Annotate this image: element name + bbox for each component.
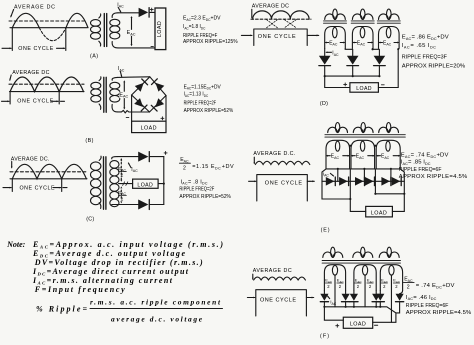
transformer T4 primary (D phase 1) xyxy=(325,9,346,19)
diode CR15 (E) xyxy=(381,177,390,186)
svg-text:APPROX RIPPLE=4.5%: APPROX RIPPLE=4.5% xyxy=(406,310,472,316)
svg-text:DV=Voltage drop in rectifier (: DV=Voltage drop in rectifier (r.m.s.) xyxy=(34,258,203,267)
wire: E junction 2-3 down xyxy=(375,169,404,194)
node junction dots on D bus xyxy=(324,75,326,77)
wire: diode to load (A) xyxy=(150,11,156,13)
svg-text:ONE CYCLE: ONE CYCLE xyxy=(17,98,53,104)
svg-text:EAC​: EAC​ xyxy=(331,154,340,160)
transformer T8 secondary winding (E phase 2) xyxy=(351,140,375,169)
label EAC/2 left half (F phase 1) xyxy=(325,278,333,290)
label + polarity (F) xyxy=(336,324,339,327)
wire: secondary bottom to diode (C) xyxy=(114,204,139,206)
one cycle frame E xyxy=(249,175,315,201)
transformer T6 primary (D phase 3) xyxy=(379,9,400,19)
svg-text:= .74 EDC​+DV: = .74 EDC​+DV xyxy=(416,283,455,289)
node: section B full-wave bridge rectifier xyxy=(2,66,234,144)
wire: F leg 5 to diode xyxy=(379,291,381,294)
label EAC (D phase 3) xyxy=(379,40,400,46)
svg-text:EAC​=2.3 EDC​+DV: EAC​=2.3 EDC​+DV xyxy=(183,16,221,22)
label IAC (F) xyxy=(327,296,336,306)
svg-text:IAC​: IAC​ xyxy=(332,51,339,57)
transformer T2 secondary xyxy=(110,77,120,112)
diode CR19 (F) xyxy=(350,294,358,301)
label EAC with arrow (A) xyxy=(127,16,136,46)
wire: bridge left corner to load (B) xyxy=(131,95,133,121)
label IAC (B) xyxy=(118,66,125,77)
svg-text:AVERAGE DC: AVERAGE DC xyxy=(12,70,49,76)
label EAC/2 right half (F phase 1) xyxy=(337,278,345,290)
load E (resistor box) xyxy=(366,206,393,217)
diode CR10 (D) xyxy=(374,56,386,65)
svg-text:(F): (F) xyxy=(320,333,329,339)
wire: E right end down to load right xyxy=(392,169,404,212)
dashed phase crossings (D) xyxy=(267,20,297,28)
wire: D cathode bus xyxy=(325,75,380,77)
wire: secondary top to diode (C) xyxy=(117,156,138,158)
svg-text:LOAD: LOAD xyxy=(141,126,157,132)
transformer T5 core (D phase 2) xyxy=(351,21,374,23)
svg-text:2: 2 xyxy=(407,284,410,290)
label + polarity (C) xyxy=(164,151,167,154)
node junction dot (E mid bus) xyxy=(374,193,376,195)
transformer T2 core xyxy=(104,77,106,112)
svg-text:EAC​: EAC​ xyxy=(356,154,365,160)
load C (resistor box) xyxy=(133,179,159,188)
svg-text:EAC​= .86 EDC​+DV: EAC​= .86 EDC​+DV xyxy=(402,35,449,41)
node: section F six-phase center-tap rectifier xyxy=(247,268,313,316)
svg-text:IAC​= .65 IDC​: IAC​= .65 IDC​ xyxy=(402,43,436,49)
diode CR9 (D) xyxy=(347,56,359,65)
transformer T1 secondary xyxy=(110,13,120,48)
svg-text:EAC​: EAC​ xyxy=(357,40,366,46)
label EAC (D phase 1) xyxy=(325,40,346,46)
svg-text:(E): (E) xyxy=(321,227,330,233)
svg-text:EAC​=1.15EDC​+DV: EAC​=1.15EDC​+DV xyxy=(184,84,221,90)
svg-text:APPROX RIPPLE=4.5%: APPROX RIPPLE=4.5% xyxy=(399,174,468,180)
transformer T8 primary (E phase 2) xyxy=(353,123,373,133)
svg-text:IAC​=1.13 IDC​: IAC​=1.13 IDC​ xyxy=(184,92,209,98)
load F (resistor box) xyxy=(343,317,372,328)
svg-text:APPROX RIPPLE=52%: APPROX RIPPLE=52% xyxy=(184,108,234,114)
wire: E junction 1-2 down to load left xyxy=(350,169,365,212)
node junction dot (E lower bus left) xyxy=(349,198,351,200)
svg-text:APPROX RIPPLE=125%: APPROX RIPPLE=125% xyxy=(183,39,238,45)
diode CR11 (E) xyxy=(326,177,335,186)
svg-text:RIPPLE FREQ=2F: RIPPLE FREQ=2F xyxy=(179,186,214,192)
diode CR2 (bridge upper-left) xyxy=(135,83,144,92)
wire: F leg 6 to diode xyxy=(400,291,403,294)
label + polarity (D) xyxy=(344,83,347,86)
svg-text:2: 2 xyxy=(339,284,342,289)
svg-text:RIPPLE FREQ=2F: RIPPLE FREQ=2F xyxy=(184,100,217,106)
transformer T12 center-tapped secondary (F phase 3) xyxy=(380,265,402,291)
label - polarity (F) xyxy=(375,324,378,326)
label EAC/2 left half (F phase 2) xyxy=(355,278,363,290)
label EAC/2 upper with dashed arrow (C) xyxy=(118,158,126,182)
wire: right rail (C) xyxy=(163,157,165,205)
svg-text:2: 2 xyxy=(183,165,186,171)
diode CR22 (F) xyxy=(396,294,404,301)
label AVERAGE DC (F) xyxy=(252,268,292,279)
svg-text:IAC​= .46 IDC​: IAC​= .46 IDC​ xyxy=(406,295,437,301)
wire: secondary top to bridge top (B) xyxy=(118,76,150,79)
label EAC/2 lower with dashed arrow (C) xyxy=(118,186,126,203)
svg-text:APPROX RIPPLE=52%: APPROX RIPPLE=52% xyxy=(179,194,231,200)
one cycle dimension C xyxy=(3,179,67,192)
wire: F bus left to load left xyxy=(324,307,343,320)
wire: D phase1 right leg to phase2 left leg xyxy=(345,49,353,56)
wire: D bus to load left xyxy=(325,76,350,87)
transformer T10 center-tapped secondary (F phase 1) xyxy=(324,265,345,291)
wire: D diode3 to bus xyxy=(378,66,380,76)
svg-text:IAC​=1.8 IDC​: IAC​=1.8 IDC​ xyxy=(183,24,206,30)
svg-text:IAC​: IAC​ xyxy=(118,66,125,72)
svg-text:=1.15 EDC​+DV: =1.15 EDC​+DV xyxy=(192,164,234,170)
wire: secondary bottom to bridge bottom (B) xyxy=(118,110,150,113)
svg-text:LOAD: LOAD xyxy=(371,211,387,217)
wire: D diode2 to bus xyxy=(352,66,354,76)
svg-text:EAC​: EAC​ xyxy=(383,40,392,46)
node junction dot (C right rail) xyxy=(163,183,165,185)
wire: secondary top to diode (A) xyxy=(118,12,139,14)
svg-text:2: 2 xyxy=(369,284,372,289)
node: section E three-phase full-wave rectifier xyxy=(249,151,315,201)
wire: F diode 3 to bus xyxy=(353,302,355,307)
label formulas B xyxy=(184,84,234,114)
diode CR20 (F) xyxy=(372,294,380,301)
wire: D phase1 left leg to diode xyxy=(324,49,326,56)
label note definitions block xyxy=(6,240,223,323)
transformer T9 primary (E phase 3) xyxy=(379,123,399,133)
svg-text:EAC​: EAC​ xyxy=(180,157,189,163)
svg-text:AVERAGE DC.: AVERAGE DC. xyxy=(11,156,50,162)
wire: top diode to right rail (C) xyxy=(149,156,163,158)
node junction dot (D right return) xyxy=(397,48,399,50)
label IAC (A) xyxy=(117,2,124,12)
transformer T11 primary (F phase 2) xyxy=(353,247,373,257)
transformer T1 core xyxy=(104,14,106,47)
node: section C full-wave center-tap rectifier xyxy=(3,151,234,222)
node junction dot (D) xyxy=(372,48,374,50)
svg-text:RIPPLE FREQ=3F: RIPPLE FREQ=3F xyxy=(402,54,448,60)
diode CR5 (bridge lower-right) xyxy=(155,98,164,107)
label IAC (D) xyxy=(326,51,339,57)
transformer T10 primary (F phase 1) xyxy=(323,247,343,257)
bridge rectifier diamond (B) xyxy=(132,77,166,112)
transformer T2 primary xyxy=(91,77,101,110)
wire: F diode 6 to bus xyxy=(396,302,400,313)
diode CR13 (E) xyxy=(355,177,364,186)
waveform D three-phase humps xyxy=(253,11,309,19)
label formulas C xyxy=(179,157,234,200)
one cycle dimension B xyxy=(2,92,65,104)
waveform E ripple line xyxy=(255,161,309,164)
waveform C full-wave humps xyxy=(10,164,87,179)
node junction dot (E arch shoulder 1-2) xyxy=(349,145,351,147)
svg-text:LOAD: LOAD xyxy=(356,86,372,92)
svg-text:(A): (A) xyxy=(90,53,98,59)
wire: center tap to load (C) xyxy=(119,183,133,185)
label EAC (E phase 2) xyxy=(351,154,375,160)
load D (resistor box) xyxy=(350,83,379,93)
wire: F diode 1 to bus xyxy=(323,302,325,307)
svg-text:% Ripple=: % Ripple= xyxy=(36,305,87,314)
transformer T6 secondary (D phase 3) xyxy=(379,27,400,49)
diode CR3 (bridge upper-right) xyxy=(155,83,164,92)
wire: D diode1 to bus xyxy=(324,66,326,76)
diode CR1 xyxy=(139,8,150,17)
svg-text:AVERAGE DC: AVERAGE DC xyxy=(253,268,292,274)
label IAC (C) xyxy=(128,163,138,173)
label EAC/2 right half (F phase 2) xyxy=(367,278,375,290)
svg-text:ONE CYCLE: ONE CYCLE xyxy=(258,34,296,40)
waveform F ripple line xyxy=(254,277,306,280)
label EAC/2 right half (F phase 3) xyxy=(393,278,401,290)
wire: load to right rail (C) xyxy=(158,183,164,185)
label - polarity (D) xyxy=(381,84,384,86)
waveform B full-wave humps xyxy=(10,77,85,92)
diode CR18 (F) xyxy=(342,294,350,301)
wire: E row line with left jog xyxy=(322,169,404,181)
transformer T6 core (D phase 3) xyxy=(377,21,400,23)
wire: E phase2 tap to row xyxy=(363,169,365,181)
svg-text:r.m.s. a.c. ripple component: r.m.s. a.c. ripple component xyxy=(90,298,221,307)
wire: center tap (F phase 3) xyxy=(390,275,392,322)
diode CR14 (E) xyxy=(365,177,374,186)
diode CR7 (C bottom) xyxy=(138,200,148,210)
diode CR4 (bridge lower-left) xyxy=(134,98,143,107)
label EAC/2 left half (F phase 3) xyxy=(381,278,389,290)
svg-text:LOAD: LOAD xyxy=(157,21,163,37)
transformer E shared core xyxy=(325,135,405,137)
label + polarity (A) xyxy=(150,8,153,11)
average dc dashed level C xyxy=(10,171,87,173)
label EAC with arrow (B) xyxy=(119,80,128,109)
svg-text:EDC=Average d.c. output voltag: EDC=Average d.c. output voltage xyxy=(32,249,185,258)
label - polarity (B) xyxy=(126,117,129,119)
node: section D three-phase half-wave rectifier xyxy=(241,4,318,46)
transformer T12 primary (F phase 3) xyxy=(379,247,399,257)
load B (resistor box) xyxy=(132,121,166,132)
svg-text:IAC​: IAC​ xyxy=(131,167,138,173)
label IAC (E) xyxy=(323,171,334,177)
one cycle dimension A xyxy=(2,28,66,51)
svg-text:F=Input frequency: F=Input frequency xyxy=(34,285,125,294)
svg-text:2: 2 xyxy=(327,284,330,289)
label formulas D xyxy=(402,35,466,70)
diode CR21 (F) xyxy=(376,294,384,301)
svg-text:2: 2 xyxy=(357,284,360,289)
svg-text:AVERAGE DC: AVERAGE DC xyxy=(14,5,55,11)
label EAC (E phase 3) xyxy=(376,154,400,160)
transformer T4 core (D phase 1) xyxy=(324,21,347,23)
label AVERAGE D.C. (E) xyxy=(253,151,295,164)
transformer T5 secondary (D phase 2) xyxy=(352,27,373,49)
label EAC (E phase 1) xyxy=(326,154,350,160)
label EAC (D phase 2) xyxy=(352,40,373,46)
label AVERAGE DC (B) xyxy=(9,70,49,80)
svg-text:(D): (D) xyxy=(320,101,328,107)
wire: E row left end to lower bus xyxy=(322,181,350,199)
svg-text:RIPPLE FREQ=6F: RIPPLE FREQ=6F xyxy=(406,303,449,309)
svg-text:EAC​= .74 EDC​+DV: EAC​= .74 EDC​+DV xyxy=(401,153,449,159)
wire: E phase1 tap to row xyxy=(337,169,339,181)
transformer T7 primary (E phase 1) xyxy=(328,123,348,133)
wire: secondary bottom to load (A) xyxy=(118,47,155,49)
node junction dot (E arch shoulder 2-3) xyxy=(374,145,376,147)
transformer T11 center-tapped secondary (F phase 2) xyxy=(354,265,376,291)
transformer T7 secondary winding (E phase 1) xyxy=(326,140,350,169)
waveform A sine (half-wave input) xyxy=(10,13,88,40)
label AVERAGE DC (C) xyxy=(11,156,50,167)
diode CR6 (C top) xyxy=(138,152,148,162)
average dc dashed level B xyxy=(9,83,84,85)
average dc dashed level D xyxy=(251,18,311,20)
svg-text:EAC​: EAC​ xyxy=(381,154,390,160)
node junction dots on F bus xyxy=(323,306,325,308)
svg-text:IAC​= .85 IDC​: IAC​= .85 IDC​ xyxy=(401,160,431,166)
transformer F shared core xyxy=(322,261,400,264)
svg-text:average d.c. voltage: average d.c. voltage xyxy=(111,315,203,324)
svg-text:ONE CYCLE: ONE CYCLE xyxy=(265,181,303,187)
wire: F diode 4 to bus xyxy=(375,302,377,307)
transformer T5 primary (D phase 2) xyxy=(352,9,373,19)
svg-text:AVERAGE DC: AVERAGE DC xyxy=(252,4,289,10)
svg-text:ONE CYCLE: ONE CYCLE xyxy=(260,297,296,303)
label AVERAGE DC (A) xyxy=(11,5,56,17)
svg-text:Note:: Note: xyxy=(6,240,26,249)
diode CR12 (E) xyxy=(339,177,348,186)
svg-text:AVERAGE D.C.: AVERAGE D.C. xyxy=(253,151,295,157)
svg-text:2: 2 xyxy=(383,284,386,289)
wire: F leg 4 to diode xyxy=(375,291,377,294)
one cycle frame F xyxy=(247,290,313,316)
label AVERAGE DC (D) xyxy=(252,4,289,18)
label formulas E xyxy=(399,153,468,181)
wire: bridge right corner to load (B) xyxy=(165,96,167,122)
wire: center tap (F phase 1) xyxy=(334,275,336,307)
svg-text:EAC=Approx. a.c. input voltage: EAC=Approx. a.c. input voltage (r.m.s.) xyxy=(32,240,223,249)
svg-text:LOAD: LOAD xyxy=(350,322,366,328)
load A (resistor box) xyxy=(155,8,166,50)
wire: center tap (F phase 2) xyxy=(364,275,366,307)
svg-text:LOAD: LOAD xyxy=(137,182,153,188)
svg-text:IDC=Average direct current out: IDC=Average direct current output xyxy=(32,267,189,276)
wire: F cathode bus xyxy=(324,307,396,323)
label - polarity (A) xyxy=(151,46,153,48)
transformer T9 secondary winding (E phase 3) xyxy=(376,140,400,169)
wire: F leg 1 to diode xyxy=(323,291,325,294)
transformer T3 primary xyxy=(91,156,102,208)
label + polarity (B) xyxy=(161,117,164,120)
wire: F diode 2 to bus xyxy=(345,302,347,307)
svg-text:IAC=r.m.s. alternating current: IAC=r.m.s. alternating current xyxy=(32,276,173,285)
label formulas A xyxy=(183,16,238,45)
svg-text:(B): (B) xyxy=(85,138,93,144)
transformer T4 secondary (D phase 1) xyxy=(325,27,346,49)
transformer T3 core xyxy=(104,157,106,210)
svg-text:2: 2 xyxy=(121,173,124,179)
svg-text:IAC​: IAC​ xyxy=(323,171,330,177)
transformer T3 center-tapped secondary xyxy=(110,157,119,207)
svg-text:ONE CYCLE: ONE CYCLE xyxy=(18,46,53,52)
svg-text:IAC​: IAC​ xyxy=(330,300,337,306)
svg-text:2: 2 xyxy=(395,284,398,289)
wire: F diode 5 to bus xyxy=(379,302,381,307)
svg-text:RIPPLE FREQ=6F: RIPPLE FREQ=6F xyxy=(399,167,442,173)
svg-text:IAC​= .8 IDC​: IAC​= .8 IDC​ xyxy=(181,179,208,185)
average dc dashed level A xyxy=(9,20,84,22)
svg-text:(C): (C) xyxy=(86,216,94,222)
label formulas F xyxy=(403,277,472,316)
diode CR16 (E) xyxy=(392,177,401,186)
svg-text:2: 2 xyxy=(121,196,124,202)
one cycle frame D xyxy=(241,29,318,46)
node: section A half-wave rectifier xyxy=(2,2,238,59)
diode CR17 (F) xyxy=(320,294,328,301)
wire: F leg 2 to diode xyxy=(345,291,347,294)
svg-text:APPROX RIPPLE=20%: APPROX RIPPLE=20% xyxy=(402,64,466,70)
diode CR8 (D) xyxy=(319,56,331,65)
transformer T1 primary xyxy=(91,14,101,46)
svg-text:ONE CYCLE: ONE CYCLE xyxy=(20,186,55,192)
wire: E phase3 tap to row xyxy=(390,169,392,181)
svg-text:EAC​: EAC​ xyxy=(329,40,338,46)
wire: D phase2 right leg to phase3 left leg xyxy=(372,49,379,56)
wire: load right to phase3 right leg (D) xyxy=(378,49,398,88)
wire: bottom diode to right rail (C) xyxy=(149,204,163,206)
wire: F leg 3 to diode xyxy=(353,291,355,294)
